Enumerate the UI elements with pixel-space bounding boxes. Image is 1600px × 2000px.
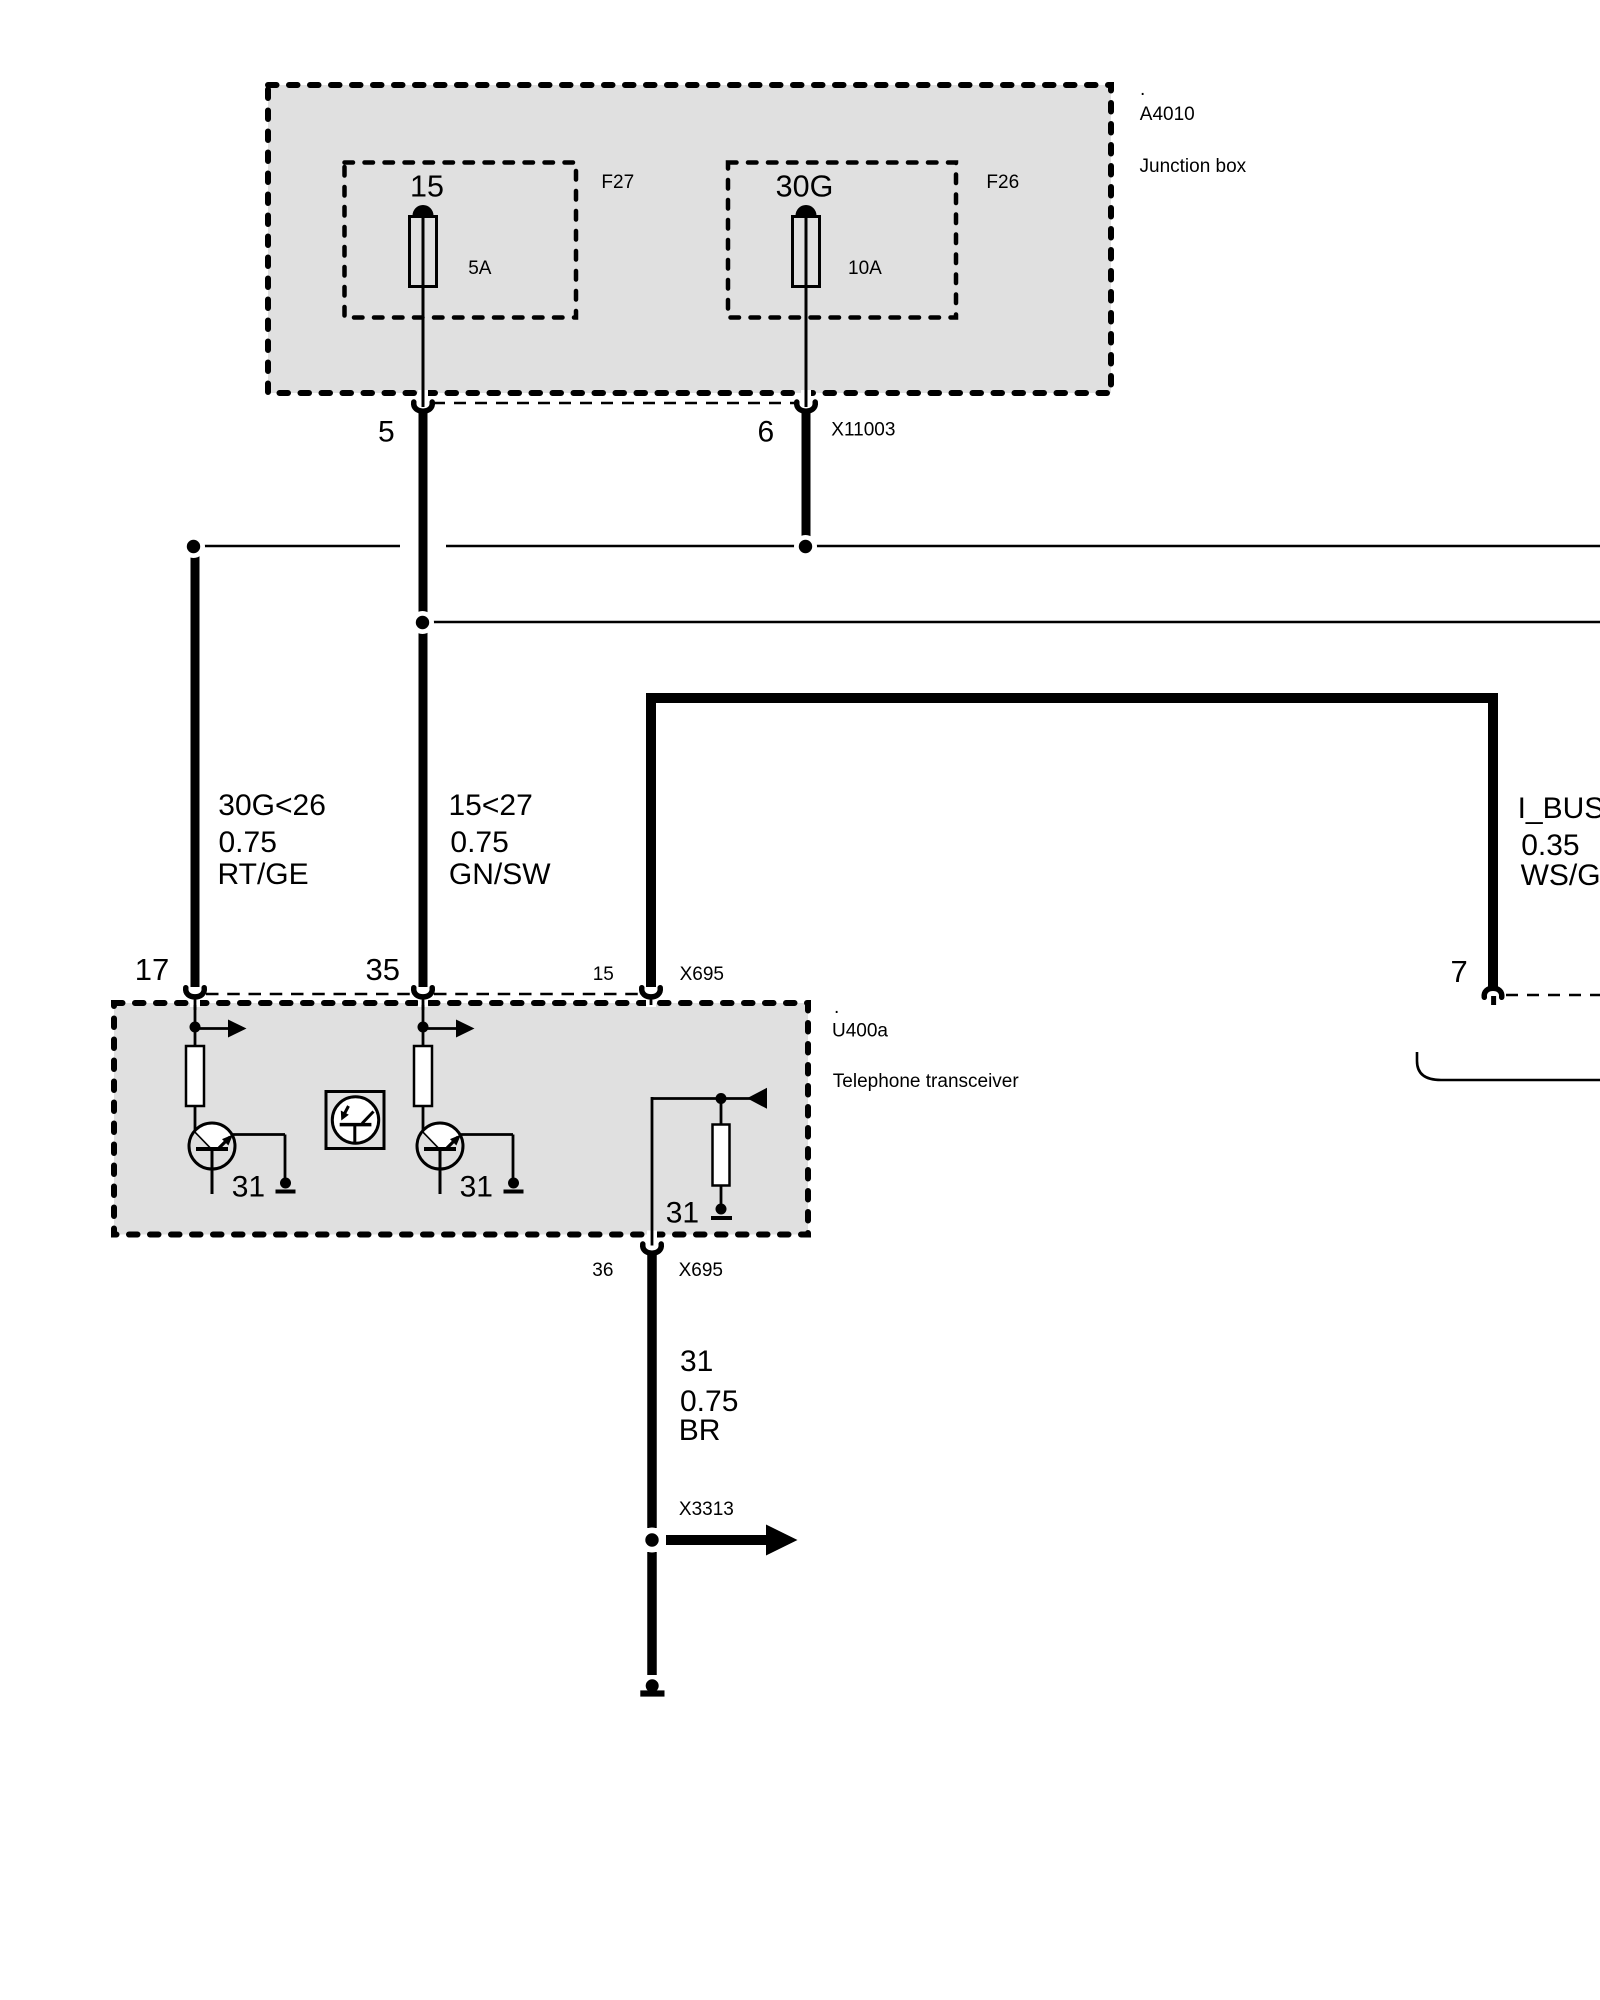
signal arrow pin 35	[423, 1020, 475, 1038]
wire I_BUS WS/GE	[651, 698, 1493, 988]
node pin 17 branch	[190, 1005, 201, 1046]
svg-text:A4010: A4010	[1140, 104, 1195, 125]
svg-text:0.75: 0.75	[450, 826, 508, 859]
connector rail X11003 (dashed)	[433, 402, 797, 405]
wire 15 GN/SW from pin 5 to pin 35	[419, 412, 428, 987]
antenna symbol	[747, 1088, 767, 1109]
ground G1 bottom	[640, 1679, 664, 1696]
svg-text:Telephone transceiver: Telephone transceiver	[833, 1071, 1020, 1092]
wire 30G&lt;26 RT/GE to pin 17	[191, 546, 200, 987]
svg-text:10A: 10A	[848, 258, 882, 279]
connector pin 35 X695	[414, 988, 433, 1010]
connector pin 5 X11003	[414, 402, 433, 411]
svg-text:31: 31	[680, 1345, 713, 1378]
svg-text:X11003: X11003	[831, 420, 895, 441]
wire gap in U400a border at pin 35	[418, 1000, 428, 1008]
wire gap in U400a border at pin 17	[190, 1000, 200, 1008]
wire gap in A4010 border at pin 5	[418, 390, 428, 398]
svg-text:31: 31	[460, 1170, 493, 1203]
svg-text:0.75: 0.75	[219, 826, 277, 859]
wire 31 BR below X3313	[647, 1552, 657, 1675]
label U400a telephone transceiver	[832, 997, 1019, 1092]
connection wire 6 / 30G line	[794, 535, 817, 558]
wire Q2 emitter to ground	[461, 1135, 514, 1180]
label 31 0.75 BR	[679, 1345, 739, 1447]
connector X3313 node	[640, 1528, 665, 1553]
svg-text:15: 15	[593, 964, 614, 985]
fuse box F27	[345, 163, 577, 318]
svg-text:X695: X695	[680, 964, 724, 985]
wire 15 distribution line	[423, 621, 1600, 624]
ground internal middle	[504, 1178, 524, 1194]
svg-text:30G: 30G	[776, 170, 834, 204]
svg-text:17: 17	[135, 952, 169, 987]
wire Q1 emitter to ground	[233, 1135, 286, 1180]
svg-text:15: 15	[410, 170, 444, 204]
node pin 35 branch	[418, 1005, 429, 1046]
connector pin 17 X695	[186, 988, 205, 1010]
svg-text:35: 35	[366, 952, 400, 987]
transistor Q1	[189, 1106, 235, 1194]
ground internal antenna	[711, 1204, 732, 1221]
transistor Q2	[417, 1106, 463, 1194]
label 15&lt;27 0.75 GN/SW	[449, 789, 552, 891]
ground internal left	[276, 1178, 296, 1194]
wire 30G from pin 6 down	[802, 412, 811, 546]
svg-text:GN/SW: GN/SW	[449, 858, 551, 891]
svg-text:U400a: U400a	[832, 1021, 888, 1042]
svg-text:31: 31	[232, 1170, 265, 1203]
svg-text:15<27: 15<27	[449, 789, 533, 822]
label I_BUS 0.35 WS/GE	[1518, 792, 1600, 892]
wire gap in A4010 border at pin 6	[801, 390, 811, 398]
node 30G start of wire 17	[182, 535, 205, 558]
svg-text:RT/GE: RT/GE	[218, 858, 309, 891]
svg-text:30G<26: 30G<26	[218, 789, 326, 822]
label 30G&lt;26 0.75 RT/GE	[218, 789, 326, 891]
svg-text:36: 36	[592, 1260, 613, 1281]
node antenna junction	[716, 1093, 727, 1104]
svg-text:.: .	[834, 997, 839, 1018]
resistor R2	[414, 1046, 432, 1106]
telephone transceiver box U400a	[114, 1003, 808, 1235]
svg-text:0.35: 0.35	[1521, 829, 1579, 862]
boxed transistor icon U1	[326, 1092, 384, 1149]
dashed continuation at pin 7	[1506, 994, 1600, 997]
svg-text:5A: 5A	[468, 258, 492, 279]
wire gap in U400a border at pin 36	[647, 1231, 657, 1239]
svg-text:F27: F27	[601, 172, 634, 193]
resistor R3	[713, 1099, 730, 1205]
connector pin 6 X11003	[797, 402, 816, 411]
wire 31 BR from pin 36	[647, 1254, 657, 1528]
svg-text:7: 7	[1451, 954, 1468, 989]
svg-text:5: 5	[378, 416, 395, 449]
fuse box F26	[728, 163, 956, 318]
label A4010 junction box	[1140, 79, 1247, 177]
svg-text:.: .	[1140, 79, 1145, 100]
wire gap in U400a border at pin 15	[646, 1000, 656, 1008]
signal arrow pin 17	[195, 1020, 247, 1038]
svg-text:Junction box: Junction box	[1140, 156, 1247, 177]
svg-text:X695: X695	[679, 1260, 723, 1281]
svg-text:I_BUS: I_BUS	[1518, 792, 1600, 825]
svg-text:BR: BR	[679, 1414, 721, 1447]
fuse F26	[793, 205, 820, 407]
svg-text:WS/GE: WS/GE	[1521, 859, 1600, 892]
junction box A4010	[268, 85, 1111, 393]
connector rail X695 (dashed)	[206, 993, 640, 996]
svg-text:31: 31	[666, 1197, 699, 1230]
resistor R1	[186, 1046, 204, 1106]
connection wire 35 / 15 line	[411, 611, 434, 634]
svg-text:6: 6	[758, 416, 775, 449]
connector pin 36 X695	[643, 1244, 662, 1253]
wire antenna branch	[652, 1097, 752, 1246]
curved wire bottom right	[1417, 1052, 1600, 1080]
fuse F27	[410, 205, 437, 407]
svg-text:X3313: X3313	[679, 1499, 734, 1520]
svg-text:F26: F26	[986, 172, 1019, 193]
connector pin 15 X695	[642, 988, 661, 1005]
wire 30G distribution line	[195, 545, 1600, 548]
connector pin 7	[1484, 988, 1502, 1005]
arrow X3313 continuation	[666, 1525, 798, 1556]
